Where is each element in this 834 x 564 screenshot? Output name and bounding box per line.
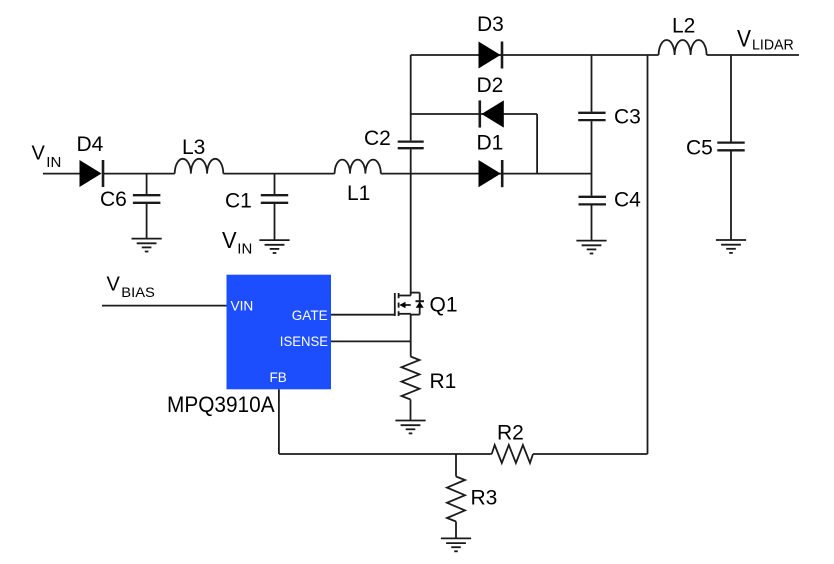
ground under C5	[716, 240, 746, 253]
wire top rail from C2 node through D3	[411, 54, 659, 56]
wire GATE pin to Q1 gate	[331, 314, 394, 316]
node VIN at C1 label	[222, 227, 252, 258]
capacitor C4	[579, 197, 607, 205]
svg-text:L2: L2	[672, 15, 695, 38]
node VIN input label	[32, 142, 62, 171]
svg-text:R3: R3	[471, 487, 498, 510]
ground under C1	[259, 240, 289, 253]
svg-text:C3: C3	[614, 105, 641, 128]
diode D4	[80, 160, 104, 187]
wire R1 to ground	[410, 400, 412, 421]
wire ISENSE pin to R1 node	[331, 340, 411, 342]
wire L3 to L1 segment	[223, 173, 334, 175]
wire FB node horizontal	[279, 453, 492, 455]
wire C6 bottom lead	[146, 204, 148, 239]
node VLIDAR output label	[737, 26, 794, 54]
svg-text:D1: D1	[477, 132, 504, 155]
svg-text:C4: C4	[614, 189, 641, 212]
wire D2 branch horizontal	[411, 113, 537, 115]
diode D1	[479, 160, 503, 187]
svg-text:V: V	[222, 227, 237, 253]
svg-text:C1: C1	[225, 190, 252, 213]
wire C1 bottom lead	[274, 204, 276, 240]
svg-text:MPQ3910A: MPQ3910A	[167, 392, 275, 417]
svg-text:ISENSE: ISENSE	[280, 334, 328, 349]
resistor R2	[492, 445, 533, 463]
inductor L2	[659, 40, 707, 55]
capacitor C2	[398, 142, 424, 149]
svg-text:VIN: VIN	[231, 299, 254, 314]
node VBIAS label	[107, 273, 155, 300]
wire feedback vertical from top rail	[647, 55, 649, 454]
wire C5 bottom lead	[730, 151, 732, 240]
svg-text:R1: R1	[430, 370, 457, 393]
capacitor C1	[261, 195, 288, 203]
svg-text:Q1: Q1	[430, 294, 458, 317]
wire C6 top lead	[146, 174, 148, 195]
wire L1 to C3/C4 node through D1	[381, 173, 592, 175]
svg-text:C6: C6	[100, 188, 127, 211]
wire C5 top lead	[730, 55, 732, 142]
svg-text:FB: FB	[270, 370, 287, 385]
wire C3 to C4 lead	[591, 121, 593, 196]
wire C1 top lead	[274, 174, 276, 195]
wire R2 to feedback corner	[533, 453, 648, 455]
svg-text:IN: IN	[46, 154, 61, 171]
svg-text:BIAS: BIAS	[121, 284, 155, 300]
wire FB pin vertical	[278, 389, 280, 454]
wire L2 to VLIDAR output	[707, 54, 799, 56]
wire main input rail left segment	[43, 173, 80, 175]
svg-text:V: V	[107, 273, 121, 295]
svg-text:V: V	[32, 142, 46, 164]
diode D3	[479, 42, 503, 69]
op-amp U1 MPQ3910A controller box	[227, 275, 332, 390]
svg-text:C5: C5	[686, 137, 713, 160]
svg-text:D3: D3	[477, 13, 504, 36]
svg-text:GATE: GATE	[292, 308, 328, 323]
inductor L1	[335, 160, 381, 174]
capacitor C3	[578, 113, 605, 120]
svg-text:R2: R2	[497, 422, 524, 445]
wire R3 top lead	[455, 454, 457, 477]
svg-text:IN: IN	[237, 241, 252, 258]
svg-text:D2: D2	[477, 74, 504, 97]
resistor R3	[447, 477, 465, 522]
ground under C4	[576, 241, 606, 254]
svg-text:D4: D4	[77, 133, 104, 156]
transistor Q1	[395, 293, 424, 316]
svg-text:L3: L3	[182, 136, 205, 159]
capacitor C6	[133, 195, 161, 203]
wire D2 cathode corner vertical	[536, 114, 538, 174]
wire R3 bottom lead	[455, 522, 457, 539]
wire Q1 source to R1	[410, 314, 412, 357]
svg-text:V: V	[737, 26, 751, 53]
wire VBIAS to VIN pin	[102, 305, 227, 307]
ground under R1	[395, 421, 425, 434]
wire D4 to L3 segment	[103, 173, 175, 175]
svg-text:LIDAR: LIDAR	[752, 37, 794, 53]
resistor R1	[402, 357, 420, 400]
ground under C6	[132, 239, 162, 252]
wire left vertical C2 upper lead	[410, 55, 412, 140]
ground under R3	[441, 538, 471, 551]
wire C2 lower lead down to Q1 drain	[410, 149, 412, 295]
wire C4 bottom lead	[591, 206, 593, 241]
capacitor C5	[717, 143, 744, 151]
wire C3 top lead	[591, 55, 593, 112]
inductor L3	[175, 159, 224, 174]
svg-text:C2: C2	[364, 127, 391, 150]
svg-text:L1: L1	[347, 182, 370, 205]
diode D2	[480, 100, 504, 127]
